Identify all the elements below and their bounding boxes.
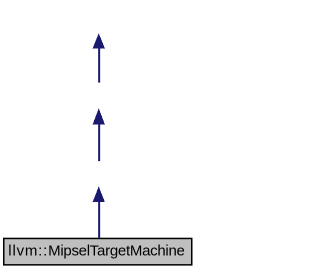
inheritance arrow 2 (to llvm::LLVMTargetMachine) xyxy=(93,108,105,161)
node llvm::MipselTargetMachine xyxy=(4,238,192,264)
svg-text:llvm::MipselTargetMachine: llvm::MipselTargetMachine xyxy=(8,243,185,260)
inheritance arrow 1 (to llvm::TargetMachine) xyxy=(93,33,105,82)
inheritance arrow 3 (to llvm::MipsTargetMachine) xyxy=(93,186,105,237)
